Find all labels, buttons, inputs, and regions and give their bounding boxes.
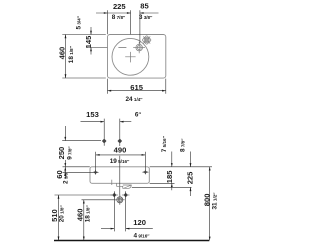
basin top view outline xyxy=(108,35,166,79)
svg-text:20 1/8″: 20 1/8″ xyxy=(59,205,66,223)
right extension lines xyxy=(132,167,212,188)
svg-text:120: 120 xyxy=(133,218,146,227)
svg-text:250: 250 xyxy=(57,147,66,160)
svg-text:460: 460 xyxy=(76,209,85,222)
svg-text:18 1/8″: 18 1/8″ xyxy=(68,45,75,63)
alternate faucet hole on rim xyxy=(142,35,151,44)
svg-text:5 3/4″: 5 3/4″ xyxy=(75,15,82,29)
svg-text:60: 60 xyxy=(55,170,64,178)
faucet hole xyxy=(133,42,145,53)
svg-text:31 1/2″: 31 1/2″ xyxy=(211,192,218,210)
svg-text:4 9/16″: 4 9/16″ xyxy=(134,232,151,239)
overflow tick xyxy=(111,180,113,185)
dim 185 right xyxy=(171,152,173,191)
fixing hole star right xyxy=(142,169,149,174)
dim 153 xyxy=(81,121,132,123)
svg-text:19 5/16″: 19 5/16″ xyxy=(110,158,130,165)
dim 460 top view left xyxy=(62,35,106,79)
fixing hole star left xyxy=(92,170,99,175)
floor line xyxy=(54,240,209,242)
dim 225 right xyxy=(190,152,192,197)
svg-text:85: 85 xyxy=(140,2,149,11)
drain hook outline xyxy=(117,183,132,188)
svg-text:24 1/4″: 24 1/4″ xyxy=(126,96,144,103)
svg-text:510: 510 xyxy=(50,209,59,222)
svg-text:460: 460 xyxy=(58,47,67,60)
dim 250 left xyxy=(62,126,101,179)
basin front view outline xyxy=(90,167,149,184)
dim 225 top xyxy=(96,10,159,43)
bolt star right below xyxy=(122,191,130,199)
svg-text:18 1/8″: 18 1/8″ xyxy=(85,205,92,223)
svg-text:6″: 6″ xyxy=(135,112,142,119)
svg-text:490: 490 xyxy=(114,146,127,155)
dim 800 right xyxy=(209,167,211,241)
svg-text:800: 800 xyxy=(202,194,211,207)
dim 120 bottom xyxy=(101,192,153,232)
svg-text:153: 153 xyxy=(86,110,99,119)
dim 145 top view left xyxy=(86,27,126,55)
dim 460 left front xyxy=(82,200,117,240)
svg-text:8 7/8″: 8 7/8″ xyxy=(180,138,187,152)
tap hole diamond right xyxy=(118,119,123,197)
svg-text:185: 185 xyxy=(165,170,174,183)
bolt star left below xyxy=(111,191,119,199)
svg-text:8 7/8″: 8 7/8″ xyxy=(112,14,126,21)
svg-text:9 7/8″: 9 7/8″ xyxy=(66,146,73,160)
dim 490 xyxy=(96,152,146,171)
bowl center crosshair xyxy=(125,52,135,63)
svg-text:615: 615 xyxy=(130,83,143,92)
drain circle xyxy=(115,195,125,205)
svg-text:7 5/16″: 7 5/16″ xyxy=(161,135,168,152)
tap hole diamond left xyxy=(102,119,107,146)
svg-text:225: 225 xyxy=(113,2,126,11)
svg-text:3 3/8″: 3 3/8″ xyxy=(139,14,153,21)
dim 60 left xyxy=(63,171,94,173)
svg-text:225: 225 xyxy=(186,171,195,184)
bowl circle xyxy=(112,38,149,75)
svg-text:2 3/8″: 2 3/8″ xyxy=(63,170,70,184)
dim 615 bottom of top view xyxy=(108,79,166,94)
dim 510 left xyxy=(55,195,113,240)
svg-text:145: 145 xyxy=(84,35,93,48)
